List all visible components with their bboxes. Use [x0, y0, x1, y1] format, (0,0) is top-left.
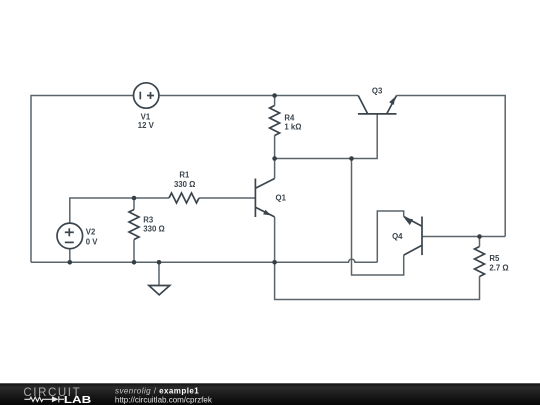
transistor Q3 [358, 96, 397, 114]
wire R4 top lead [274, 96, 276, 106]
node R4 top [272, 93, 277, 98]
footer title text [115, 386, 199, 395]
svg-text:svenrolig / example1: svenrolig / example1 [115, 386, 199, 395]
svg-text:R5: R5 [489, 254, 500, 263]
svg-text:R4: R4 [284, 114, 295, 123]
wire ground stem [158, 262, 160, 285]
wire R5 top lead [479, 237, 481, 247]
node R5 top [477, 234, 482, 239]
resistor R1 [169, 193, 199, 203]
wire bottom return to R5 [275, 262, 480, 299]
resistor R3 [129, 210, 139, 240]
wire R4 bottom lead [274, 136, 276, 159]
label R4 value [284, 114, 301, 132]
svg-text:330 Ω: 330 Ω [174, 180, 195, 189]
node ground tap [157, 260, 162, 265]
wire drop to Q4 bottom terminal [352, 159, 404, 276]
svg-text:http://circuitlab.com/cprzfek: http://circuitlab.com/cprzfek [115, 395, 213, 404]
footer bar [0, 383, 540, 405]
svg-text:0 V: 0 V [86, 238, 99, 247]
voltage source V2 [57, 223, 83, 249]
wire R1 to Q1 base [199, 197, 255, 199]
svg-text:R3: R3 [143, 216, 154, 225]
wire Q4 top terminal [377, 211, 403, 262]
wire R3 bottom lead [133, 240, 135, 263]
logo squiggle [24, 396, 64, 402]
wire top rail left segment [31, 96, 134, 263]
label V1 value [138, 113, 155, 130]
wire Q4 base to right rail [422, 236, 505, 238]
svg-text:330 Ω: 330 Ω [143, 225, 164, 234]
resistor R5 [475, 247, 485, 277]
svg-text:Q3: Q3 [372, 86, 383, 95]
label V2 value [86, 228, 99, 247]
svg-text:1 kΩ: 1 kΩ [284, 122, 301, 131]
footer url text [115, 395, 213, 404]
resistor R4 [270, 106, 280, 136]
svg-text:LAB: LAB [64, 395, 91, 405]
label R5 value [489, 254, 508, 273]
wire V2 top to base line [70, 198, 134, 223]
wire Q1 collector [274, 159, 276, 179]
label Q3 [372, 86, 383, 95]
logo LAB [64, 395, 91, 405]
wire base line to R1 [134, 197, 169, 199]
voltage source V1 [134, 83, 159, 108]
svg-text:12 V: 12 V [138, 121, 155, 130]
transistor Q4 [404, 217, 422, 256]
svg-text:2.7 Ω: 2.7 Ω [489, 263, 508, 272]
wire top rail middle segment [159, 95, 358, 97]
label Q1 [276, 194, 287, 203]
svg-text:V2: V2 [86, 228, 96, 237]
transistor Q1 [255, 179, 274, 218]
node R3 bottom [132, 260, 137, 265]
ground [149, 286, 170, 295]
svg-text:R1: R1 [179, 170, 190, 179]
wire R3 top lead [133, 198, 135, 210]
node R3 top [132, 196, 137, 201]
label Q4 [392, 232, 403, 241]
logo CIRCUIT [23, 387, 81, 399]
node V2 bottom [68, 260, 73, 265]
wire V2 bottom [69, 249, 71, 263]
wire node row to Q3 base [275, 114, 378, 159]
wire bottom rail with hop [31, 259, 377, 262]
svg-text:Q1: Q1 [276, 194, 287, 203]
node Q1 emitter junction [272, 260, 277, 265]
label R3 value [143, 216, 164, 234]
node R4 bottom / Q1 collector [272, 156, 277, 161]
label R1 value [174, 170, 195, 189]
wire Q1 emitter [274, 217, 276, 262]
wire top rail right segment [397, 96, 506, 237]
svg-text:Q4: Q4 [392, 232, 403, 241]
node drop wire tap [349, 156, 354, 161]
